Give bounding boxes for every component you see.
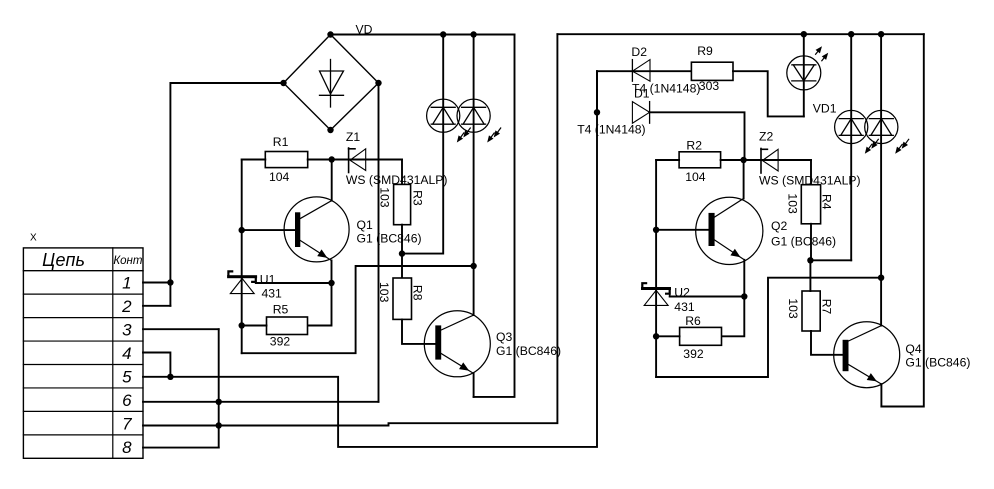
svg-text:R6: R6 [685, 314, 701, 328]
svg-text:R5: R5 [273, 302, 289, 316]
svg-text:Цепь: Цепь [42, 250, 85, 270]
svg-text:104: 104 [269, 170, 290, 184]
svg-text:G1 (BC846): G1 (BC846) [771, 235, 836, 249]
svg-text:G1 (BC846): G1 (BC846) [905, 356, 970, 370]
svg-text:4: 4 [122, 344, 131, 363]
svg-text:Q4: Q4 [905, 342, 921, 356]
svg-text:303: 303 [699, 79, 720, 93]
svg-text:U1: U1 [260, 273, 276, 287]
svg-text:431: 431 [674, 300, 695, 314]
svg-text:103: 103 [377, 282, 391, 303]
svg-text:Z1: Z1 [346, 130, 360, 144]
svg-text:6: 6 [122, 391, 132, 410]
svg-text:1: 1 [122, 274, 131, 293]
svg-text:G1 (BC846): G1 (BC846) [496, 344, 561, 358]
svg-text:7: 7 [122, 414, 132, 433]
svg-text:Q2: Q2 [771, 219, 787, 233]
svg-text:U2: U2 [674, 285, 690, 299]
svg-text:Конт: Конт [113, 255, 143, 267]
svg-text:T4 (1N4148): T4 (1N4148) [577, 123, 645, 137]
svg-text:103: 103 [786, 193, 800, 214]
svg-text:103: 103 [378, 187, 392, 208]
svg-text:G1 (BC846): G1 (BC846) [357, 232, 422, 246]
svg-text:5: 5 [122, 368, 132, 387]
svg-text:R9: R9 [697, 44, 713, 58]
svg-text:2: 2 [121, 297, 132, 316]
svg-text:Q3: Q3 [496, 330, 512, 344]
svg-text:392: 392 [270, 334, 291, 348]
svg-text:VD1: VD1 [813, 102, 837, 116]
svg-text:R3: R3 [411, 190, 425, 206]
svg-text:3: 3 [122, 321, 132, 340]
svg-text:R4: R4 [820, 194, 834, 210]
svg-text:R2: R2 [686, 139, 702, 153]
svg-text:Z2: Z2 [759, 129, 773, 143]
svg-text:R7: R7 [819, 299, 833, 315]
svg-text:R1: R1 [273, 135, 289, 149]
svg-text:431: 431 [262, 287, 283, 301]
svg-text:392: 392 [683, 347, 704, 361]
svg-text:D2: D2 [631, 45, 647, 59]
svg-text:R8: R8 [410, 285, 424, 301]
svg-text:X: X [30, 233, 37, 244]
svg-text:8: 8 [122, 438, 132, 457]
svg-text:103: 103 [786, 298, 800, 319]
svg-text:D1: D1 [634, 87, 650, 101]
svg-text:Q1: Q1 [357, 218, 373, 232]
svg-text:104: 104 [685, 170, 706, 184]
